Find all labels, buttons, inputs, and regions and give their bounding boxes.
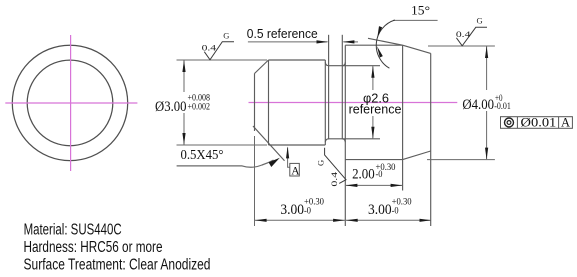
- arrow Ø4 down: [485, 148, 488, 160]
- arc 15deg: [376, 20, 395, 68]
- taper top 15deg: [403, 45, 431, 53]
- arrow 3.00b right: [420, 219, 432, 222]
- svg-text:Hardness: HRC56 or more: Hardness: HRC56 or more: [24, 239, 163, 256]
- outer circle Ø4: [12, 45, 127, 160]
- arrow 3.00a left: [255, 219, 267, 222]
- groove fillet top-left: [325, 62, 329, 65]
- arrow 0.5X45: [269, 158, 280, 167]
- bottom edge Ø4: [345, 159, 402, 161]
- inner circle Ø3: [27, 60, 113, 146]
- datum A leader: [288, 148, 290, 168]
- centerline horizontal (side view): [249, 102, 458, 104]
- groove left face: [324, 60, 326, 145]
- groove right face + ext down to 3.00 dim: [344, 45, 346, 226]
- crease at taper start + ext for 2.00: [402, 45, 404, 190]
- arrow 0.5 ref pointing left: [343, 40, 355, 43]
- ext line Ø3 bottom: [177, 144, 268, 146]
- svg-text:0.4: 0.4: [456, 29, 472, 39]
- top edge Ø4: [345, 44, 402, 46]
- centerline vertical (left view): [70, 35, 72, 171]
- svg-text:G: G: [223, 31, 229, 41]
- svg-text:Ø4.00: Ø4.00: [462, 97, 494, 113]
- FCF box: [501, 117, 573, 129]
- svg-text:0.4: 0.4: [202, 43, 218, 53]
- chamfer top: [255, 60, 269, 74]
- dim line phi2.6 lower: [372, 116, 374, 138]
- left face: [254, 74, 256, 132]
- svg-text:A: A: [291, 166, 300, 178]
- arrow Ø3 down: [182, 133, 185, 145]
- arrow 15deg upper (at taper ext line): [377, 26, 382, 37]
- datum A arrow: [286, 146, 289, 158]
- dim line Ø4 upper: [486, 47, 488, 91]
- svg-text:reference: reference: [349, 103, 402, 117]
- datum A box: [290, 163, 300, 176]
- groove fillet top-right: [342, 62, 345, 65]
- chamfer bottom (extended line): [253, 126, 285, 161]
- dim line 0.5 ref left: [248, 41, 328, 43]
- groove fillet bottom-right: [342, 139, 345, 142]
- arrow 3.00b left: [346, 219, 358, 222]
- groove bottom top edge + ext for phi2.6: [328, 65, 380, 67]
- arrow Ø4 up: [485, 46, 488, 58]
- leader 15deg: [393, 19, 438, 21]
- ext line Ø4 bottom: [427, 159, 495, 161]
- dim line 3.00 first: [255, 219, 345, 221]
- arrow phi2.6 down: [371, 127, 374, 139]
- dim line 2.00: [346, 184, 402, 186]
- svg-text:0.4: 0.4: [329, 171, 339, 187]
- dim line Ø3 upper segment: [183, 61, 185, 93]
- centerline horizontal (left view): [5, 102, 137, 104]
- svg-text:0.5 reference: 0.5 reference: [247, 26, 318, 41]
- dim line Ø3 lower segment: [183, 113, 185, 145]
- dim line 3.00 second: [346, 219, 431, 221]
- svg-text:A: A: [561, 115, 571, 130]
- ext line Ø3 top: [177, 59, 268, 61]
- groove tangent line right / 0.5 ext: [341, 35, 343, 139]
- concentricity symbol: [505, 118, 514, 127]
- arrow 2.00 left: [346, 184, 358, 187]
- bottom edge Ø3: [269, 144, 326, 146]
- svg-text:+0.002: +0.002: [188, 103, 211, 113]
- arrow Ø3 up: [182, 60, 185, 72]
- dim line Ø4 lower: [486, 111, 488, 159]
- svg-text:G: G: [477, 16, 483, 26]
- arrow 2.00 right: [391, 184, 403, 187]
- svg-text:G: G: [315, 160, 325, 166]
- taper bottom: [403, 151, 431, 160]
- svg-text:0.5X45°: 0.5X45°: [181, 147, 224, 162]
- svg-text:Material: SUS440C: Material: SUS440C: [24, 221, 122, 238]
- svg-text:-0.01: -0.01: [494, 102, 511, 112]
- taper extension line: [368, 38, 403, 45]
- dim line phi2.6 upper: [372, 66, 374, 90]
- svg-text:-0: -0: [392, 207, 399, 217]
- leader 0.5X45: [177, 160, 274, 167]
- arrow phi2.6 up: [371, 66, 374, 78]
- top edge Ø3: [269, 59, 326, 61]
- svg-text:Surface Treatment: Clear Anodi: Surface Treatment: Clear Anodized: [24, 257, 211, 274]
- dim line 0.5 ref right tail: [343, 41, 358, 43]
- arrow 0.5 ref pointing right: [317, 40, 329, 43]
- arrow 15deg lower (at horizontal edge): [377, 46, 383, 57]
- groove bottom bottom edge + ext for phi2.6: [328, 138, 380, 140]
- ext line left face down to 3.00: [254, 136, 256, 226]
- arrow 3.00a right: [333, 219, 345, 222]
- svg-text:15°: 15°: [411, 3, 430, 18]
- svg-text:Ø3.00: Ø3.00: [155, 99, 187, 115]
- svg-text:-0: -0: [376, 170, 383, 180]
- groove fillet bottom-left: [325, 139, 329, 142]
- svg-text:-0: -0: [304, 207, 311, 217]
- ext line Ø4 top: [428, 45, 495, 47]
- svg-text:2.00: 2.00: [352, 167, 375, 183]
- svg-text:3.00: 3.00: [368, 202, 392, 218]
- groove tangent line left / 0.5 ext: [328, 35, 330, 139]
- crease at chamfer end: [268, 60, 270, 145]
- svg-text:Ø0.01: Ø0.01: [521, 115, 557, 130]
- svg-text:3.00: 3.00: [280, 202, 304, 218]
- right face + ext down to 3.00 dim: [430, 53, 432, 226]
